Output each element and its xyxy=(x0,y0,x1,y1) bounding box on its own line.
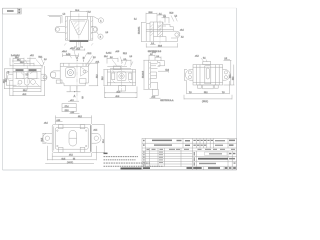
svg-text:46.6: 46.6 xyxy=(116,96,120,98)
stem dims xyxy=(68,100,79,102)
svg-text:ø12.9: ø12.9 xyxy=(70,48,75,50)
svg-text:24.3±0.2: 24.3±0.2 xyxy=(143,71,145,78)
bottom stem xyxy=(119,86,126,92)
svg-text:1.5: 1.5 xyxy=(225,58,228,60)
view7: bottom-center top view xyxy=(42,115,105,163)
center square xyxy=(117,72,126,81)
bottom dims xyxy=(13,91,41,93)
row3 xyxy=(199,163,216,164)
svg-text:7.9: 7.9 xyxy=(189,92,192,94)
svg-text:(1.2): (1.2) xyxy=(152,52,156,54)
header small cells right xyxy=(195,138,197,148)
svg-text:7.9: 7.9 xyxy=(222,92,225,94)
svg-text:ø8.4: ø8.4 xyxy=(44,123,48,125)
top dim xyxy=(56,117,92,119)
svg-text:8.4: 8.4 xyxy=(157,56,160,58)
svg-text:8.4: 8.4 xyxy=(8,71,10,73)
svg-text:( 44.2 ): ( 44.2 ) xyxy=(67,162,73,164)
side slots xyxy=(112,73,115,80)
right dim xyxy=(103,125,105,153)
svg-text:27.4: 27.4 xyxy=(103,140,105,144)
svg-text:R1.6: R1.6 xyxy=(170,13,174,15)
funnel center xyxy=(70,20,87,35)
bottom dims xyxy=(187,93,230,95)
right dim vertical xyxy=(97,63,99,86)
bottom stem xyxy=(67,86,71,92)
svg-text:3.1: 3.1 xyxy=(203,57,206,59)
svg-text:43.2: 43.2 xyxy=(23,94,27,96)
stacked dim box below view4 xyxy=(62,104,80,114)
svg-text:ø3.4: ø3.4 xyxy=(180,29,184,31)
bottom dims xyxy=(150,43,156,45)
svg-text:4.2: 4.2 xyxy=(181,37,184,39)
svg-text:ø6.2: ø6.2 xyxy=(70,100,74,102)
drawing title cell xyxy=(198,158,228,160)
svg-text:2-ø3.4: 2-ø3.4 xyxy=(106,52,111,54)
bottom stem xyxy=(74,42,82,48)
centerline xyxy=(76,58,78,101)
svg-text:14.9±0.1: 14.9±0.1 xyxy=(139,27,141,34)
parts rows xyxy=(142,150,237,152)
main outline xyxy=(60,63,88,86)
view1: top-center section view xyxy=(48,10,108,51)
bottom feet xyxy=(198,85,202,88)
svg-text:44.2: 44.2 xyxy=(78,116,82,118)
centerline xyxy=(78,14,80,49)
bottom stem dims xyxy=(73,49,85,51)
centerlines xyxy=(26,65,28,90)
top tab xyxy=(114,66,121,70)
top bump xyxy=(203,61,211,64)
svg-text:ø14.4: ø14.4 xyxy=(62,51,67,53)
body walls xyxy=(64,17,66,41)
svg-text:SECTION A-A: SECTION A-A xyxy=(160,99,174,102)
hatch funnel xyxy=(74,22,80,33)
center square + circle xyxy=(66,68,75,78)
svg-text:R2.2: R2.2 xyxy=(123,53,127,55)
hatch wall left xyxy=(66,20,68,39)
top-right leaders xyxy=(171,16,177,22)
title block xyxy=(121,138,237,169)
right reference line xyxy=(158,70,168,72)
svg-text:12.5: 12.5 xyxy=(229,75,231,78)
right block rows xyxy=(192,155,236,157)
svg-text:1.2: 1.2 xyxy=(63,13,66,15)
vertical label cells xyxy=(194,152,195,156)
svg-text:6.2: 6.2 xyxy=(124,59,127,61)
slash marks in second col xyxy=(159,152,163,153)
svg-text:1.2: 1.2 xyxy=(175,15,178,17)
svg-text:58.2: 58.2 xyxy=(204,92,208,94)
left dim xyxy=(141,23,143,42)
left dim xyxy=(103,70,105,86)
right features xyxy=(81,67,88,76)
svg-text:8.6: 8.6 xyxy=(110,57,113,59)
svg-text:20.8: 20.8 xyxy=(20,62,24,64)
outer body xyxy=(52,125,91,153)
bottom row xyxy=(193,167,202,169)
top dims xyxy=(70,10,87,12)
svg-text:R2.1: R2.1 xyxy=(39,56,43,58)
left dim xyxy=(143,60,145,89)
balloon 1 xyxy=(98,18,103,23)
outline xyxy=(146,22,173,31)
svg-text:2.9: 2.9 xyxy=(163,16,166,18)
svg-text:44.2: 44.2 xyxy=(117,91,121,93)
hatch wall right xyxy=(91,20,93,39)
svg-text:47.5: 47.5 xyxy=(69,155,73,157)
bottom stem xyxy=(152,89,158,95)
svg-text:12.3: 12.3 xyxy=(165,70,169,72)
view2: top-right section B-B xyxy=(134,12,184,53)
svg-text:23.5: 23.5 xyxy=(42,138,44,142)
centerline xyxy=(121,60,123,93)
svg-text:10.4: 10.4 xyxy=(104,56,108,58)
svg-text:ø4.2: ø4.2 xyxy=(195,56,199,58)
sheet border bottom xyxy=(3,169,237,171)
centerline xyxy=(159,21,161,44)
parts cols xyxy=(148,148,150,167)
dims between view1 and view4 xyxy=(63,53,85,61)
left tab xyxy=(185,70,193,81)
bottom dims xyxy=(52,155,91,157)
svg-text:1.4: 1.4 xyxy=(134,18,137,20)
right ear xyxy=(171,31,180,38)
svg-text:( 58.2 ): ( 58.2 ) xyxy=(202,101,208,103)
top edge small tabs xyxy=(58,125,63,129)
svg-text:R1.2: R1.2 xyxy=(88,53,92,55)
left dims xyxy=(184,70,186,81)
center slot xyxy=(205,66,211,84)
header two rows left xyxy=(142,142,237,144)
mid band xyxy=(146,29,173,31)
right dims xyxy=(230,60,232,85)
small capsule tab left of view4 xyxy=(50,71,62,83)
top dims xyxy=(149,54,155,56)
sheet border left xyxy=(2,8,4,170)
arrows under body xyxy=(64,43,93,45)
view3: mid-left front view xyxy=(3,55,47,96)
svg-text:38.1: 38.1 xyxy=(23,90,27,92)
svg-text:10.5: 10.5 xyxy=(233,77,235,80)
main outline xyxy=(13,69,41,89)
top slots dark xyxy=(16,69,24,71)
right ear xyxy=(91,26,98,32)
dark bottom plate xyxy=(70,40,89,41)
left tab xyxy=(7,74,13,80)
sheet border right xyxy=(236,8,238,170)
interior diagonals xyxy=(17,71,39,87)
svg-text:1.6: 1.6 xyxy=(130,56,133,58)
svg-text:ø8.2: ø8.2 xyxy=(30,55,34,57)
svg-text:4.15: 4.15 xyxy=(71,112,75,114)
svg-text:55: 55 xyxy=(73,158,75,160)
svg-text:ø8.6: ø8.6 xyxy=(116,51,120,53)
dim lines above body xyxy=(107,66,127,68)
outer body xyxy=(193,65,223,85)
company name cell xyxy=(205,152,228,155)
top dims xyxy=(146,12,157,14)
center capsule xyxy=(69,130,77,146)
sheet border top xyxy=(3,7,237,9)
balloon 2 xyxy=(98,34,103,39)
outline xyxy=(107,70,135,86)
svg-text:13.5: 13.5 xyxy=(62,158,66,160)
svg-text:1.5: 1.5 xyxy=(150,54,153,56)
svg-text:1.6: 1.6 xyxy=(106,32,109,34)
view6: mid-right bottom view xyxy=(184,56,235,103)
profile xyxy=(149,60,160,66)
left dims xyxy=(4,69,6,89)
right tab xyxy=(223,70,231,81)
export file label outside xyxy=(121,168,142,170)
svg-text:24.3: 24.3 xyxy=(96,75,98,79)
wide bottom dims xyxy=(105,92,138,94)
revision box top-left xyxy=(3,8,22,14)
outer xyxy=(142,138,237,169)
hatch cluster left xyxy=(150,24,153,35)
svg-text:15.6: 15.6 xyxy=(5,79,7,83)
right tab xyxy=(92,133,102,143)
right tab xyxy=(41,74,47,80)
corner dots xyxy=(57,130,58,131)
notes block xyxy=(104,153,164,167)
hatch cluster mid xyxy=(158,24,163,36)
left dim xyxy=(42,133,44,143)
view5a: dims-heavy view xyxy=(102,51,137,98)
svg-text:ø8.4: ø8.4 xyxy=(94,129,98,131)
left flange line xyxy=(48,15,62,22)
left col tiny marks xyxy=(143,140,145,141)
title texts as smudges xyxy=(121,140,236,170)
svg-text:24.3: 24.3 xyxy=(102,77,104,81)
svg-text:ø6.2: ø6.2 xyxy=(152,97,156,99)
view4: mid-center front view xyxy=(60,48,99,102)
svg-text:4.15: 4.15 xyxy=(57,120,61,122)
left tab xyxy=(43,133,53,143)
svg-text:1.6: 1.6 xyxy=(44,59,47,61)
svg-text:1.6: 1.6 xyxy=(88,11,91,13)
view5b: section A-A xyxy=(143,52,174,103)
left ear xyxy=(55,26,65,32)
